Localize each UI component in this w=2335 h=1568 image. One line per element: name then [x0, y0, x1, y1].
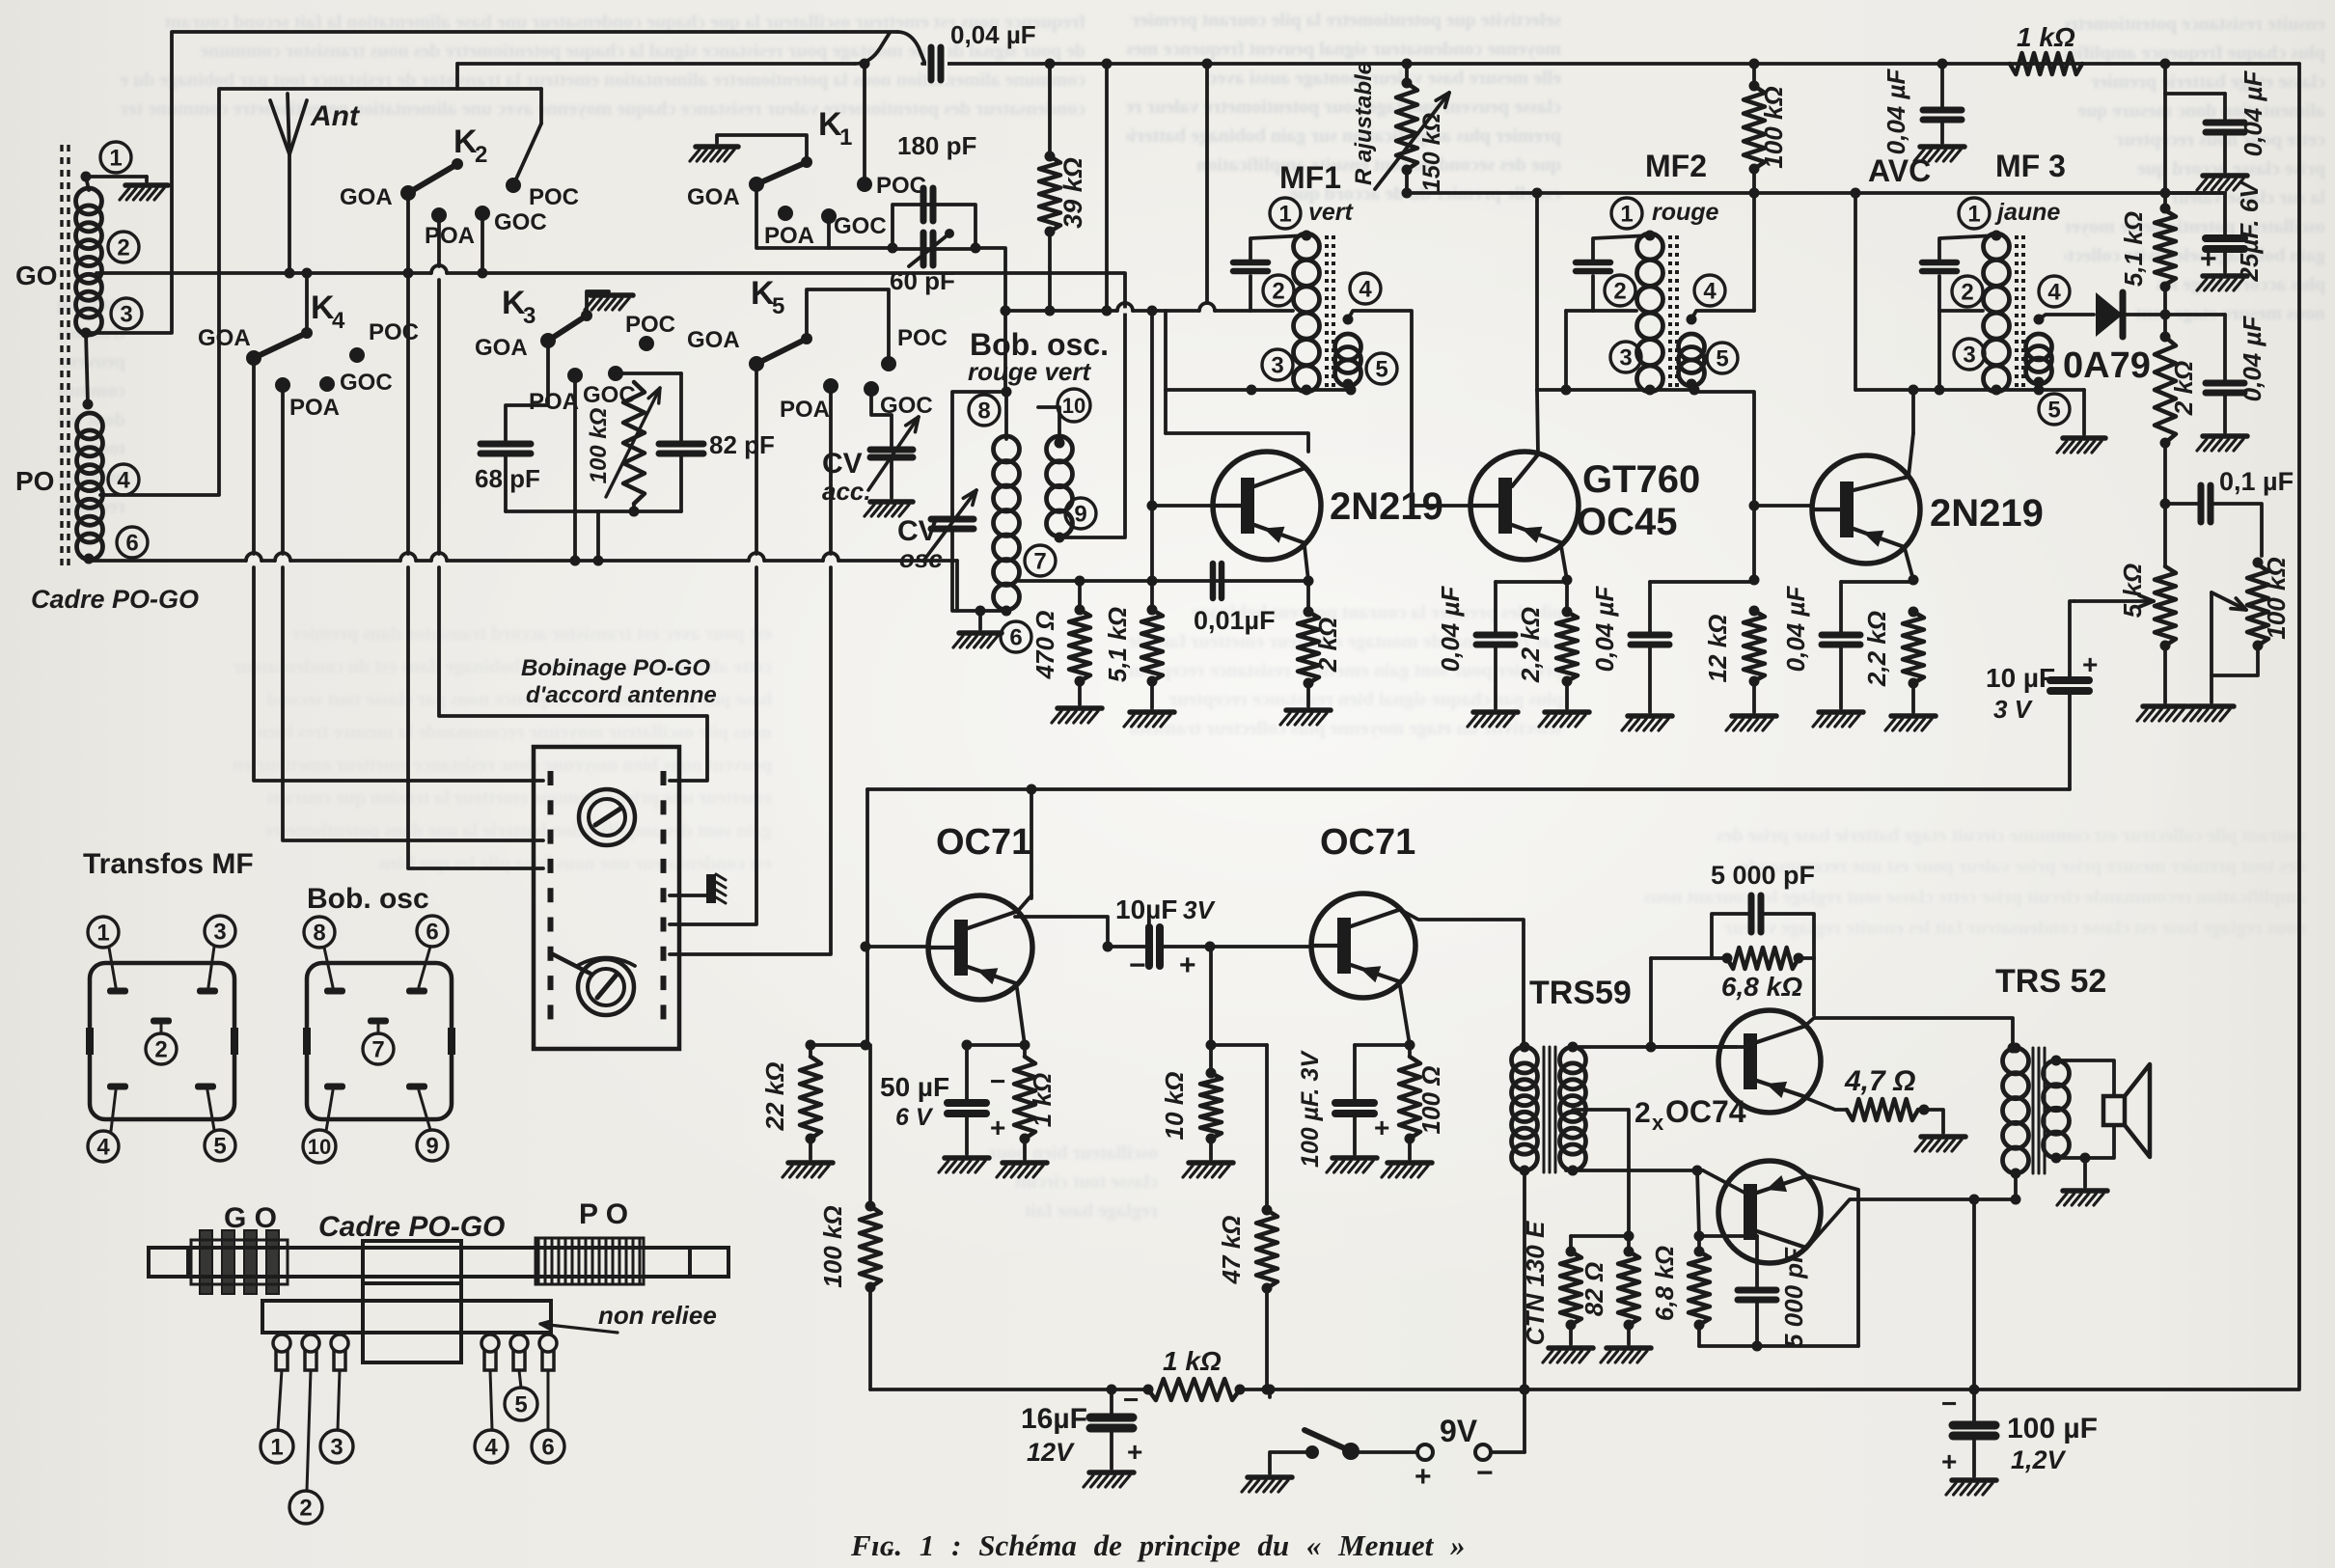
transistor OC71 no2 — [1311, 894, 1415, 998]
svg-text:0,04 µF: 0,04 µF — [1590, 586, 1619, 673]
switch K3 — [540, 333, 556, 348]
wire MF3 tap2 — [1939, 309, 1983, 313]
node ant junction — [285, 268, 295, 279]
svg-text:4: 4 — [2047, 280, 2061, 306]
ground (speaker) — [2063, 1188, 2107, 1194]
svg-text:GOC: GOC — [494, 209, 547, 235]
svg-text:POC: POC — [625, 312, 675, 338]
wire left riser — [86, 32, 897, 333]
capacitor MF1 — [1233, 260, 1268, 266]
capacitor 0,04 (12k) — [1631, 632, 1669, 639]
capacitor 0,04 (GT760) — [1476, 632, 1515, 639]
svg-text:470 Ω: 470 Ω — [1030, 611, 1059, 680]
wire K4 GOA down — [252, 358, 256, 554]
wire cluster bottom rail — [506, 509, 681, 513]
svg-text:82 Ω: 82 Ω — [1580, 1262, 1608, 1316]
diode OA79 — [2096, 292, 2123, 337]
wire lower emitter — [1806, 1175, 1858, 1346]
ground (K3) — [591, 292, 633, 298]
node 2 MF2 — [1605, 275, 1635, 306]
wire Raj top — [1405, 64, 1409, 83]
box transfos MF — [90, 963, 234, 1119]
transformer TRS59 secondary — [1560, 1047, 1586, 1073]
wire 39k top — [1048, 64, 1052, 156]
svg-text:6,8 kΩ: 6,8 kΩ — [1721, 972, 1802, 1002]
node 2 — [108, 232, 139, 262]
svg-text:GOA: GOA — [340, 184, 393, 210]
svg-text:2: 2 — [475, 142, 487, 168]
wire base col — [865, 789, 869, 1045]
node 2 (rod) — [289, 1491, 322, 1524]
ground (100k vol) — [2189, 703, 2234, 709]
ground (470) — [1058, 705, 1102, 711]
capacitor 5000pF fb1 — [1712, 914, 1751, 958]
wire TRS52 prim bottom — [2014, 1173, 2018, 1199]
svg-text:GOC: GOC — [834, 213, 887, 239]
potentiometer 5k — [2155, 566, 2176, 646]
svg-text:MF1: MF1 — [1279, 160, 1341, 195]
node 4 — [108, 464, 139, 495]
wire POA long — [432, 270, 446, 275]
wire tap4 — [100, 89, 541, 495]
svg-text:2: 2 — [1272, 279, 1284, 305]
resistor 2,2k no2 — [1909, 607, 1919, 618]
svg-text:47 kΩ: 47 kΩ — [1217, 1216, 1246, 1285]
svg-text:AVC: AVC — [1868, 153, 1931, 188]
svg-text:3: 3 — [1619, 345, 1632, 371]
transistor OC74 lower — [1718, 1161, 1821, 1263]
svg-text:2: 2 — [154, 1037, 167, 1063]
svg-text:0A79: 0A79 — [2063, 345, 2151, 386]
svg-text:8: 8 — [313, 921, 325, 947]
wire cluster to PO bus — [596, 511, 600, 561]
ferrite rod (dashed) — [60, 145, 63, 571]
switch K1 — [749, 177, 764, 192]
cadre block — [363, 1241, 461, 1283]
wire base no1 — [1152, 504, 1213, 508]
ferrite rod — [149, 1248, 728, 1277]
TRS52 core — [2032, 1048, 2035, 1173]
wire K3 GOA to 68pF — [506, 341, 548, 442]
ground (0,04 det) — [2203, 433, 2247, 439]
svg-text:12V: 12V — [1027, 1438, 1075, 1467]
wire fb riser — [1649, 958, 1653, 1047]
wire GO bus — [96, 271, 1125, 275]
resistor 10k — [1200, 1073, 1222, 1139]
speaker — [2103, 1096, 2125, 1125]
svg-text:3V: 3V — [1183, 895, 1216, 924]
wire top bus — [922, 62, 2299, 66]
wire — [2223, 249, 2227, 272]
svg-text:100 µF. 3V: 100 µF. 3V — [1297, 1050, 1324, 1168]
wire emitter line no2 — [1841, 580, 1913, 584]
ground (2k no1) — [1286, 707, 1331, 713]
resistor 39k — [1039, 156, 1060, 232]
resistor 6,8k fb2 — [1697, 1236, 1701, 1252]
svg-text:2: 2 — [1961, 280, 1973, 306]
svg-text:3: 3 — [1271, 353, 1283, 379]
svg-text:6 V: 6 V — [895, 1104, 934, 1131]
node 6 (rod) — [532, 1430, 564, 1463]
svg-text:rouge: rouge — [1652, 199, 1719, 226]
svg-text:2 kΩ: 2 kΩ — [1313, 618, 1342, 673]
wire K3 tip to ground — [587, 291, 609, 316]
svg-text:3: 3 — [523, 303, 536, 329]
wire right col top — [2163, 64, 2167, 94]
node 4 MF2 — [1694, 275, 1725, 306]
wire fb top rail — [1651, 956, 1727, 960]
svg-text:9: 9 — [426, 1134, 438, 1160]
ground (100uF) — [1332, 1155, 1377, 1161]
wire fb2 bottom — [1697, 1325, 1701, 1346]
block switch arm — [553, 954, 591, 974]
wire MF1 tap2 — [1250, 309, 1293, 313]
block bobinage accord — [534, 747, 679, 1049]
node 1 — [100, 142, 131, 173]
svg-text:P O: P O — [579, 1198, 628, 1230]
node 5 MF2 — [1707, 343, 1738, 373]
wire 47k riser — [1265, 1045, 1269, 1210]
svg-text:TRS 52: TRS 52 — [1995, 963, 2106, 1000]
svg-text:4: 4 — [1359, 277, 1372, 303]
node dots on tap line — [1075, 576, 1085, 587]
wire ctn link — [1571, 1234, 1629, 1238]
svg-text:+: + — [990, 1113, 1005, 1142]
thermistor CTN 130E — [1560, 1252, 1581, 1325]
node 4 (box) — [88, 1131, 119, 1162]
ground (16uF) — [1089, 1470, 1134, 1475]
wire right col 2 — [2163, 94, 2167, 193]
switch K4 — [246, 350, 261, 366]
wire det col down — [2163, 443, 2167, 504]
wire to osc — [975, 248, 1005, 392]
svg-text:+: + — [1941, 1446, 1957, 1476]
svg-text:8: 8 — [977, 399, 990, 425]
ground (0,04 em2) — [1819, 709, 1863, 715]
wire battery riser — [1523, 1389, 1526, 1452]
resistor 100k ant (variable) — [623, 382, 645, 504]
svg-text:jaune: jaune — [1994, 199, 2060, 226]
wire collector out — [1015, 917, 1108, 947]
wire fb to collector rail — [1812, 958, 1816, 1015]
wire 82pF top — [679, 373, 683, 442]
capacitor 5000pF fb2 — [1738, 1287, 1776, 1294]
wire fb2 top — [1699, 1234, 1757, 1238]
wire 0,04 line (12k) — [1650, 580, 1754, 584]
node 3 (box) — [205, 916, 235, 947]
wire GO-PO link — [86, 333, 88, 404]
svg-text:5: 5 — [1375, 357, 1387, 383]
svg-text:GO: GO — [15, 261, 58, 290]
node 4 MF1 — [1350, 273, 1381, 304]
wire collector no2 — [1909, 433, 1913, 477]
svg-text:2,2 kΩ: 2,2 kΩ — [1516, 607, 1545, 683]
svg-text:1,2V: 1,2V — [2011, 1445, 2067, 1474]
winding GO — [191, 1240, 288, 1284]
ground (5k) — [2143, 703, 2187, 709]
capacitor 25uF — [2165, 191, 2225, 195]
transformer MF3 primary — [1984, 234, 2010, 260]
pins bob osc box — [324, 988, 345, 995]
capacitor MF2 — [1576, 260, 1610, 266]
svg-text:6: 6 — [426, 920, 438, 946]
svg-text:POC: POC — [897, 325, 948, 351]
wire cap bracket — [893, 205, 975, 248]
wire MF3 bottom rail — [1855, 388, 2084, 392]
wire TRS59 sec top — [1573, 1045, 1737, 1049]
wire 4,7 gnd — [1924, 1110, 1943, 1133]
ground (CV acc) — [870, 499, 913, 505]
svg-text:2,2 kΩ: 2,2 kΩ — [1862, 611, 1891, 687]
wire base no2 — [1754, 504, 1812, 508]
wire K5 POA down — [829, 386, 833, 554]
svg-text:5 000 pF: 5 000 pF — [1779, 1247, 1808, 1348]
svg-text:39 kΩ: 39 kΩ — [1058, 157, 1087, 229]
resistor 100k AVC — [1752, 64, 1756, 86]
wire osc tap7 — [1019, 579, 1308, 583]
capacitor 100uF 1,2V — [1972, 1389, 1976, 1423]
svg-text:Cadre PO-GO: Cadre PO-GO — [31, 585, 199, 614]
svg-text:100 kΩ: 100 kΩ — [1759, 86, 1788, 168]
capacitor 16uF 12V — [1110, 1389, 1113, 1416]
svg-text:OC74: OC74 — [1665, 1094, 1746, 1129]
capacitor 0,04 (AVC filter) — [1940, 64, 1944, 108]
svg-text:3: 3 — [213, 920, 226, 946]
node 2 MF1 — [1263, 275, 1294, 306]
wire MF2 tap2 — [1593, 309, 1636, 313]
ground (1k em1) — [1003, 1160, 1047, 1166]
transistor 2N219 no2 — [1812, 455, 1920, 564]
wire emitter no2 — [1905, 548, 1913, 580]
node 7 — [1025, 545, 1056, 576]
wire MF1 cap chain — [1250, 235, 1306, 262]
svg-text:Bob. osc: Bob. osc — [307, 883, 429, 915]
strip pin leads — [278, 1370, 282, 1430]
svg-text:100 kΩ: 100 kΩ — [586, 407, 612, 483]
node 2 MF3 — [1952, 276, 1983, 307]
wire MF1 bottom rail — [1166, 388, 1351, 392]
ground (12k) — [1732, 713, 1776, 719]
wire emitter no1 — [1305, 546, 1308, 581]
node 8 — [969, 395, 1000, 426]
wire TRS52 sec top — [2056, 1060, 2114, 1096]
node 6 — [117, 527, 148, 558]
svg-text:68 pF: 68 pF — [475, 464, 540, 493]
svg-text:82 pF: 82 pF — [709, 430, 775, 459]
wire MF2 cap chain — [1593, 235, 1650, 262]
svg-text:POC: POC — [529, 184, 579, 210]
node 10 — [1058, 389, 1090, 422]
wire PO bus — [89, 559, 957, 563]
resistor 6,8k fb1 — [1727, 948, 1799, 969]
wire emitter no2 — [1400, 986, 1410, 1045]
svg-text:+: + — [1415, 1461, 1432, 1493]
transformer TRS52 primary — [2003, 1048, 2029, 1074]
svg-text:2N219: 2N219 — [1930, 492, 2044, 535]
svg-text:2: 2 — [1634, 1097, 1651, 1129]
svg-text:0,04 µF: 0,04 µF — [950, 20, 1036, 49]
node 10 (box) — [303, 1130, 336, 1163]
svg-text:+: + — [2200, 243, 2217, 275]
wire — [1648, 645, 1652, 712]
ground (22k) — [788, 1160, 833, 1166]
trimmer 1 — [579, 789, 635, 845]
node 7 (box) — [363, 1033, 394, 1064]
svg-text:0,01µF: 0,01µF — [1194, 606, 1276, 635]
node 4 MF3 — [2039, 276, 2070, 307]
capacitor 82pF — [659, 441, 703, 448]
node 1 MF1 — [1270, 198, 1301, 229]
svg-text:100 Ω: 100 Ω — [1416, 1066, 1445, 1135]
wire top-to-mid riser — [1105, 64, 1109, 311]
capacitor 0,04uF (top bus) — [926, 44, 948, 83]
wire upper base — [1651, 1045, 1746, 1049]
switch (power) — [1342, 1443, 1360, 1460]
wire base GT760 — [1412, 504, 1470, 508]
capacitor 0,04 (top right) — [2206, 120, 2244, 126]
transformer MF2 primary — [1637, 234, 1663, 260]
svg-text:POA: POA — [289, 395, 340, 421]
resistor 2,2k GT760 — [1565, 580, 1569, 612]
wire upper emitter — [1806, 1098, 1847, 1110]
resistor 100ohm — [1399, 1057, 1420, 1139]
svg-text:Transfos MF: Transfos MF — [83, 848, 254, 880]
wire K2 POA down — [437, 215, 441, 266]
svg-text:acc.: acc. — [822, 477, 871, 506]
wire TRS59 sec bottom — [1692, 1166, 1703, 1176]
svg-text:100 µF: 100 µF — [2007, 1413, 2098, 1444]
svg-text:1: 1 — [109, 146, 122, 172]
capacitor 50uF — [965, 1045, 969, 1101]
capacitor CV osc (variable) — [931, 516, 974, 523]
wire K5 GOC to CVacc — [871, 389, 892, 446]
wire MF1 sec top — [1348, 311, 1412, 506]
wire lower base — [1566, 1169, 1703, 1172]
wire MF3 cap chain — [1939, 235, 1996, 262]
wire AVC — [1407, 191, 2225, 195]
svg-text:10 µF: 10 µF — [1986, 663, 2055, 693]
wire MF3 left riser2 — [1937, 311, 1941, 390]
svg-text:4: 4 — [332, 308, 345, 334]
resistor 82 — [1627, 1236, 1631, 1252]
svg-text:GOA: GOA — [475, 335, 528, 361]
coil GO — [76, 188, 102, 214]
capacitor MF3 — [1922, 260, 1957, 266]
svg-text:5,1 kΩ: 5,1 kΩ — [1103, 607, 1132, 682]
switch K2 — [400, 185, 416, 201]
capacitor 10uF (coupling) — [1108, 945, 1149, 949]
svg-text:GOA: GOA — [687, 327, 740, 353]
wire top bus jog — [897, 32, 924, 62]
wire K3 POA down — [573, 375, 577, 561]
svg-text:0,04 µF: 0,04 µF — [1436, 586, 1465, 673]
wire — [1494, 645, 1497, 708]
wire TRS52 sec bottom — [2056, 1125, 2114, 1158]
ground (K1) — [696, 144, 738, 150]
resistor 47k — [1256, 1210, 1277, 1288]
ground (0,04 GT760) — [1473, 709, 1518, 715]
svg-text:+: + — [2082, 649, 2098, 679]
winding PO — [536, 1238, 644, 1284]
leader lines bob box — [324, 948, 333, 987]
switch K5 — [749, 356, 764, 371]
wire K1 tip to ground — [717, 135, 807, 162]
MF1 core — [1325, 235, 1329, 390]
wire GT760 col rail riser — [1535, 193, 1539, 390]
svg-text:1: 1 — [96, 921, 109, 947]
ground (coil GO top) — [125, 182, 168, 188]
transformer TRS59 primary — [1512, 1047, 1538, 1073]
svg-text:10: 10 — [308, 1135, 331, 1159]
wire emitter GT760 — [1561, 546, 1567, 580]
svg-text:5 kΩ: 5 kΩ — [2118, 564, 2147, 618]
transformer MF3 secondary — [2026, 334, 2052, 360]
capacitor 68pF — [481, 441, 531, 448]
node 3 MF3 — [1954, 339, 1985, 370]
wire TRS59 prim bottom — [1523, 1170, 1526, 1389]
svg-text:1: 1 — [839, 124, 852, 151]
svg-text:12 kΩ: 12 kΩ — [1703, 615, 1732, 683]
resistor 1k em1 — [1014, 1057, 1035, 1139]
wire second bus — [457, 62, 855, 66]
svg-text:16µF: 16µF — [1021, 1403, 1087, 1435]
svg-text:0,1 µF: 0,1 µF — [2219, 467, 2294, 496]
ground (2,2k no2) — [1891, 713, 1936, 719]
ground (25uF) — [2203, 273, 2247, 279]
svg-text:3: 3 — [1963, 343, 1975, 369]
wire 47k node — [1211, 1043, 1267, 1047]
node 3 MF1 — [1262, 349, 1293, 380]
wire collector GT760 — [1537, 390, 1538, 454]
ground (osc) — [978, 611, 982, 629]
ground (5,1k) — [1130, 709, 1174, 715]
node 6 — [1001, 621, 1031, 652]
node 8 (box) — [304, 917, 335, 948]
wire bottom bus left — [870, 1388, 1148, 1391]
node 1 (rod) — [261, 1430, 293, 1463]
resistor 5,1k no1 — [1150, 581, 1154, 610]
wire collector riser no1 — [1018, 895, 1031, 911]
wire collector no2 riser — [1399, 909, 1524, 1047]
resistor 22k — [810, 1043, 865, 1047]
svg-text:1: 1 — [270, 1435, 283, 1461]
capacitor 100uF 3V — [1353, 1045, 1357, 1101]
node 3 (rod) — [320, 1430, 353, 1463]
node K1 bottom — [888, 243, 898, 254]
svg-text:POA: POA — [780, 397, 830, 423]
svg-text:Ant: Ant — [310, 100, 361, 132]
ground (4,7) — [1921, 1134, 1965, 1140]
node 1 (box) — [88, 917, 119, 948]
svg-text:MF 3: MF 3 — [1995, 149, 2066, 183]
battery terminal plus — [1417, 1444, 1433, 1460]
wire K5 tip bracket — [807, 289, 889, 358]
wire switch to ground — [1270, 1452, 1312, 1473]
ground (100ohm) — [1387, 1160, 1432, 1166]
svg-text:−: − — [1476, 1457, 1494, 1489]
wire to 5k — [2163, 504, 2167, 566]
svg-text:4,7 Ω: 4,7 Ω — [1844, 1065, 1915, 1097]
svg-text:0,04 µF: 0,04 µF — [1882, 69, 1910, 155]
wire riser x474 — [455, 64, 459, 89]
svg-text:+: + — [1179, 949, 1196, 981]
svg-text:6: 6 — [125, 531, 138, 557]
resistor 1k (bus) — [1148, 1379, 1240, 1400]
node 9 (box) — [417, 1130, 448, 1161]
svg-text:−: − — [1129, 949, 1146, 981]
svg-text:rouge vert: rouge vert — [968, 357, 1091, 386]
svg-text:60 pF: 60 pF — [890, 266, 955, 295]
